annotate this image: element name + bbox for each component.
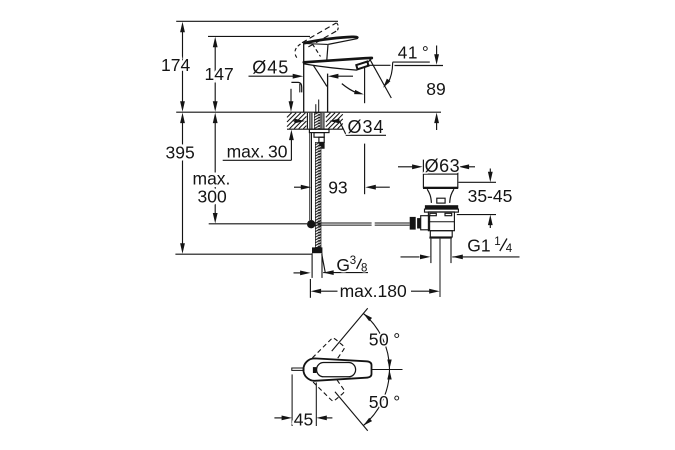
svg-text:35-45: 35-45 [468, 186, 513, 206]
svg-text:93: 93 [328, 178, 347, 198]
svg-text:8: 8 [361, 263, 367, 275]
svg-text:50 °: 50 ° [369, 329, 401, 349]
svg-text:G: G [336, 255, 350, 275]
svg-text:Ø45: Ø45 [252, 58, 289, 78]
svg-text:45: 45 [294, 410, 313, 430]
svg-text:300: 300 [198, 187, 227, 207]
svg-text:G1: G1 [467, 236, 490, 256]
svg-text:max. 30: max. 30 [227, 142, 288, 162]
svg-text:max.: max. [193, 168, 231, 188]
svg-text:147: 147 [205, 64, 234, 84]
svg-text:41 °: 41 ° [398, 43, 429, 63]
svg-text:Ø34: Ø34 [348, 117, 385, 137]
svg-text:395: 395 [166, 143, 195, 163]
svg-text:max.180: max.180 [340, 281, 407, 301]
svg-text:4: 4 [506, 243, 513, 255]
svg-text:174: 174 [161, 55, 190, 75]
svg-text:89: 89 [426, 79, 445, 99]
svg-text:50 °: 50 ° [369, 392, 401, 412]
svg-text:3: 3 [350, 255, 356, 267]
svg-text:1: 1 [494, 236, 500, 248]
svg-text:Ø63: Ø63 [425, 156, 461, 176]
